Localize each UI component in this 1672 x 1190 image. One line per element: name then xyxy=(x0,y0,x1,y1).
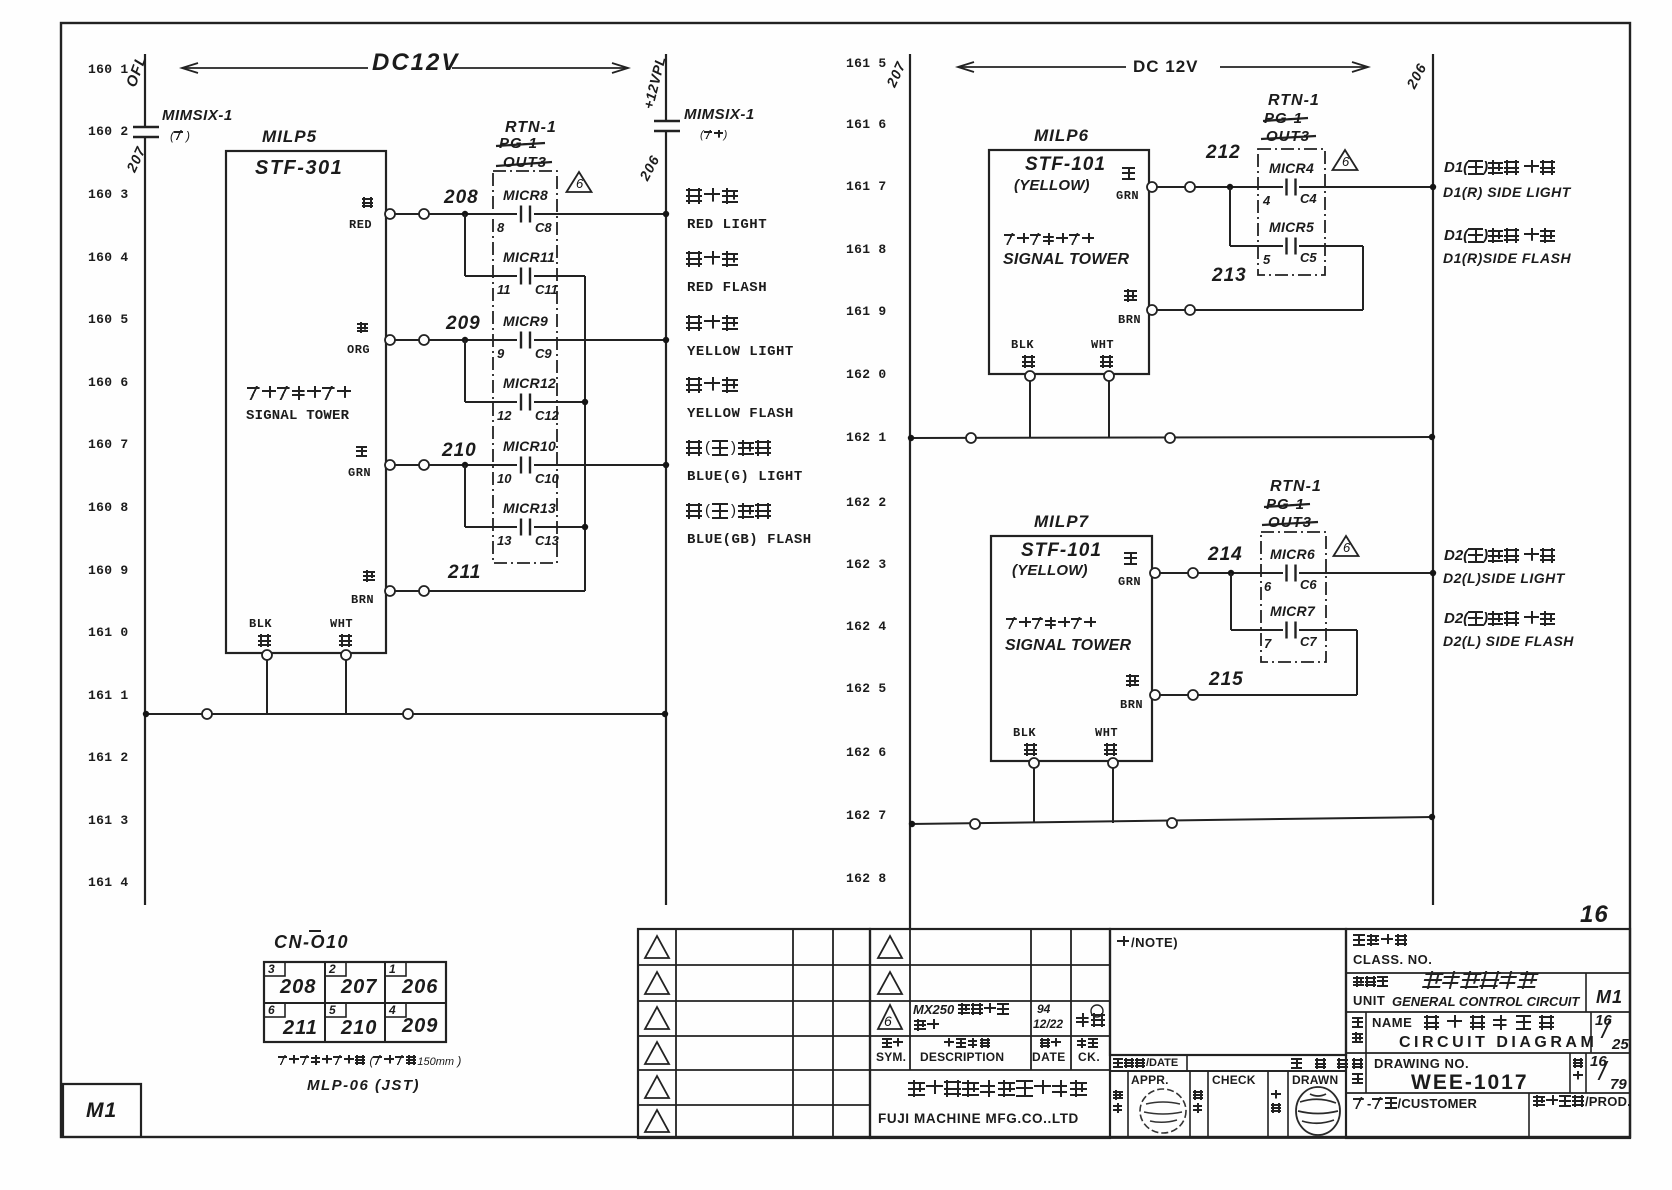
capacitor label MICR6/C6 xyxy=(1270,547,1315,561)
wire branch 208 down xyxy=(464,214,466,276)
wire branch 210 down xyxy=(464,465,466,527)
sheet code box M1 xyxy=(63,1084,141,1137)
sheet code M1 xyxy=(86,1100,117,1121)
capacitor C13 MICR13 xyxy=(520,519,522,536)
signal tower MILP6 STF-101 box xyxy=(989,150,1149,374)
wire label 213 xyxy=(1212,266,1247,285)
drawing no row xyxy=(1352,1058,1365,1089)
pin GRN circle MILP7 xyxy=(1150,568,1160,578)
svg-text:6: 6 xyxy=(576,176,584,191)
label STF-101 MILP6 xyxy=(1025,155,1106,174)
output label D2 side light xyxy=(1444,548,1556,563)
unit row xyxy=(1353,976,1389,987)
macron over CN-010 zero xyxy=(309,930,321,932)
revision triangle L1 xyxy=(645,936,669,958)
wire label 209 xyxy=(446,314,481,333)
connector label MIMSIX-1 left xyxy=(162,108,233,123)
output label D1 side flash xyxy=(1444,228,1556,243)
pin GRN circle xyxy=(385,460,395,470)
wire flash return MILP6 xyxy=(1362,246,1364,310)
node label row 1615 xyxy=(846,57,887,70)
unit sheet M1 xyxy=(1596,988,1623,1006)
node label row 1627 xyxy=(846,809,887,822)
node label row 1617 xyxy=(846,180,887,193)
label signal tower katakana MILP7 xyxy=(1006,617,1097,629)
output label RED FLASH xyxy=(686,251,740,267)
revision table right block xyxy=(870,929,1110,1138)
page col labels xyxy=(1573,1058,1585,1084)
node label row 1611 xyxy=(88,689,129,702)
pin GRN circle MILP6 xyxy=(1147,182,1157,192)
capacitor label MICR10/C10 xyxy=(503,439,556,453)
label signal tower katakana MILP6 xyxy=(1004,233,1095,245)
revision date 94 12/22 xyxy=(1037,1003,1050,1015)
node label row 1625 xyxy=(846,682,887,695)
output label BLUE(GB) FLASH xyxy=(686,503,772,519)
signal tower MILP5 STF-301 box xyxy=(226,151,386,653)
wire D1 flash row xyxy=(1230,245,1283,247)
pin RED circle xyxy=(385,209,395,219)
wire RED flash row xyxy=(465,275,517,277)
signal tower MILP7 STF-101 box xyxy=(991,536,1152,761)
net label +12VPL xyxy=(641,55,668,111)
strike line OUT3 M6 xyxy=(1261,136,1316,139)
node label row 1623 xyxy=(846,558,887,571)
output label YELLOW LIGHT xyxy=(686,315,740,331)
node label row 1612 xyxy=(88,751,129,764)
revision triangle L4 xyxy=(645,1042,669,1064)
strike line PG-1 M6 xyxy=(1263,118,1308,121)
return box RTN-1 MILP6 dash-dot xyxy=(1258,149,1325,275)
note header xyxy=(1117,936,1178,949)
output label YELLOW FLASH xyxy=(686,377,740,393)
wire WHT leg xyxy=(345,660,347,714)
pin label BLK MILP6 xyxy=(1011,339,1034,351)
label PG-1 struck xyxy=(499,136,538,151)
connector label MIMSIX-1 right xyxy=(684,107,755,122)
capacitor label MICR11/C11 xyxy=(503,250,555,264)
output label RED LIGHT xyxy=(686,188,740,204)
net label 206 right half xyxy=(1404,61,1429,91)
connector pin value 207 xyxy=(341,977,377,997)
label signal tower side lead note xyxy=(278,1055,461,1068)
pin label BRN xyxy=(363,570,377,582)
wire label 215 xyxy=(1209,670,1244,689)
pin label GRN MILP6 xyxy=(1122,167,1137,180)
wire BLK leg MILP6 xyxy=(1029,381,1031,438)
label RTN-1 left xyxy=(505,120,557,136)
circle CK mark xyxy=(1091,1005,1103,1017)
label MILP6 xyxy=(1034,127,1089,144)
node +12VPL right bus of left half xyxy=(665,54,667,121)
connector MIMSIX-1 right bars xyxy=(654,120,680,123)
svg-text:6: 6 xyxy=(1342,154,1350,169)
capacitor C5 MICR5 xyxy=(1285,238,1287,255)
page 16/79 xyxy=(1590,1054,1607,1069)
net label 206 right bus of left half xyxy=(637,153,662,183)
pin label ORG xyxy=(357,322,370,333)
pin BRN circle xyxy=(385,586,395,596)
stamp APPR scribble xyxy=(1140,1089,1186,1133)
node label row 1610 xyxy=(88,626,129,639)
wire label 214 xyxy=(1208,545,1243,564)
wire label 212 xyxy=(1206,143,1241,162)
node label row 1603 xyxy=(88,188,129,201)
node label row 1619 xyxy=(846,305,887,318)
pin BRN circle MILP7 xyxy=(1150,690,1160,700)
name row xyxy=(1352,1017,1365,1048)
pin BRN circle MILP6 xyxy=(1147,305,1157,315)
wire flash return MILP7 xyxy=(1356,630,1358,695)
connector pin value 208 xyxy=(280,977,316,997)
output label D1 side light xyxy=(1444,160,1556,175)
label SIGNAL TOWER MILP6 xyxy=(1003,252,1129,268)
unit name GENERAL CONTROL CIRCUIT xyxy=(1392,995,1579,1008)
wire label 208 xyxy=(444,188,479,207)
pin ORG circle xyxy=(385,335,395,345)
date header row xyxy=(1113,1058,1178,1069)
connector pin value 209 xyxy=(402,1016,438,1036)
capacitor label MICR12/C12 xyxy=(503,376,556,390)
revision triangle 6 entry xyxy=(878,1005,902,1029)
label OUT3 struck xyxy=(503,155,547,170)
capacitor C7 MICR7 xyxy=(1285,622,1287,639)
revision table left block xyxy=(638,929,870,1138)
capacitor C10 MICR10 xyxy=(520,457,522,474)
node label row 1616 xyxy=(846,118,887,131)
node label row 1604 xyxy=(88,251,129,264)
note panel xyxy=(1110,929,1346,1055)
label RTN-1 MILP6 xyxy=(1268,93,1320,109)
node label row 1609 xyxy=(88,564,129,577)
pin label WHT MILP6 xyxy=(1091,339,1114,351)
return box RTN-1 MILP7 dash-dot xyxy=(1261,532,1326,662)
node label row 1605 xyxy=(88,313,129,326)
customer row xyxy=(1353,1097,1477,1110)
capacitor label MICR13/C13 xyxy=(503,501,556,515)
date header row xyxy=(1110,1055,1346,1071)
marker triangle 6 MILP7 xyxy=(1334,536,1359,556)
pin WHT circle MILP6 xyxy=(1104,371,1114,381)
name CIRCUIT DIAGRAM xyxy=(1399,1035,1597,1051)
node label row 1606 xyxy=(88,376,129,389)
node label row 1622 xyxy=(846,496,887,509)
pin BLK circle MILP6 xyxy=(1025,371,1035,381)
net label DC12V left xyxy=(372,51,459,75)
connector pin value 210 xyxy=(341,1018,377,1038)
label MILP7 xyxy=(1034,513,1089,530)
wire DC 12V span arrow right half xyxy=(958,66,1126,68)
label RTN-1 MILP7 xyxy=(1270,479,1322,495)
capacitor C11 MICR11 xyxy=(520,268,522,285)
wire 213 BRN row MILP6 xyxy=(1157,309,1363,311)
strike line PG-1 M7 xyxy=(1264,504,1310,507)
pin WHT circle MILP7 xyxy=(1108,758,1118,768)
wire 209 ORG light row xyxy=(395,339,517,341)
wire 1627 row xyxy=(910,817,1433,824)
pin label WHT xyxy=(330,618,353,630)
wire BLK leg MILP7 xyxy=(1033,768,1035,823)
node label row 1621 xyxy=(846,431,887,444)
node label row 1601 xyxy=(88,63,129,76)
capacitor C4 MICR4 xyxy=(1285,179,1287,196)
connector MIMSIX-1 left bars xyxy=(133,126,159,129)
node label row 1614 xyxy=(88,876,129,889)
node 206 bus right half xyxy=(1432,54,1434,905)
revision triangle L3 xyxy=(645,1007,669,1029)
pin label RED xyxy=(362,197,375,208)
connector pin value 206 xyxy=(402,977,438,997)
label MILP5 xyxy=(262,128,317,145)
title block panel xyxy=(1346,929,1630,1138)
capacitor label MICR9/C9 xyxy=(503,314,548,328)
label STF-301 xyxy=(255,158,343,178)
page 16/25 xyxy=(1595,1013,1612,1028)
node label row 1620 xyxy=(846,368,887,381)
capacitor label MICR8/C8 xyxy=(503,188,548,202)
capacitor label MICR4/C4 xyxy=(1269,161,1314,175)
revision triangle R1 xyxy=(878,936,902,958)
pin label BRN MILP6 xyxy=(1124,289,1139,302)
wire 1621 row xyxy=(910,437,1433,438)
label MLP-06 JST xyxy=(307,1078,420,1093)
wire 212 D1 light row xyxy=(1157,186,1283,188)
strike line OUT3 M7 xyxy=(1262,522,1318,525)
stamp row cells xyxy=(1110,1071,1346,1138)
name kanji circuit diagram xyxy=(1424,1015,1562,1030)
drawing number WEE-1017 xyxy=(1411,1072,1529,1093)
pin label BRN MILP7 xyxy=(1126,674,1141,687)
capacitor C6 MICR6 xyxy=(1285,565,1287,582)
wire 208 RED light row xyxy=(395,213,517,215)
revision entry MX250 note xyxy=(913,1003,1010,1016)
unit name handwritten kanji xyxy=(1422,971,1540,989)
revision triangle L2 xyxy=(645,972,669,994)
node label row 1613 xyxy=(88,814,129,827)
net label DC 12V right xyxy=(1133,58,1199,75)
label SIGNAL TOWER xyxy=(246,409,349,423)
marker triangle 6 MILP6 xyxy=(1333,150,1358,170)
pin label WHT MILP7 xyxy=(1095,727,1118,739)
stamp DRAWN scribble xyxy=(1296,1087,1340,1135)
revision CK name xyxy=(1076,1013,1106,1027)
wire BLUE flash row xyxy=(465,526,517,528)
net label OFL xyxy=(124,53,149,89)
pin label BLK xyxy=(249,618,272,630)
svg-text:6: 6 xyxy=(1343,540,1351,555)
node 207 bus right half xyxy=(909,54,911,928)
capacitor label MICR5/C5 xyxy=(1269,220,1314,234)
wire 211 BRN row xyxy=(395,590,585,592)
node label row 1602 xyxy=(88,125,129,138)
pin label GRN xyxy=(356,446,369,457)
marker triangle 6 left xyxy=(567,172,592,192)
capacitor C12 MICR12 xyxy=(520,394,522,411)
label STF-101 MILP7 xyxy=(1021,541,1102,560)
header SYM row xyxy=(882,1038,904,1048)
revision triangle L6 xyxy=(645,1110,669,1132)
strike line PG-1 left xyxy=(496,143,545,146)
wire flash return vertical xyxy=(584,276,586,591)
return box RTN-1 left dash-dot xyxy=(493,171,557,563)
node label row 1628 xyxy=(846,872,887,885)
net label 207 left bus xyxy=(124,144,148,174)
wire WHT leg MILP7 xyxy=(1112,768,1114,823)
wire DC12V span arrow left half xyxy=(182,67,368,69)
connector label CN-010 xyxy=(274,933,349,951)
revision triangle R2 xyxy=(878,972,902,994)
wire BLK leg xyxy=(266,660,268,714)
wire label 210 xyxy=(442,441,477,460)
node OFL left bus xyxy=(144,54,146,127)
svg-text:6: 6 xyxy=(884,1013,892,1029)
pin WHT circle xyxy=(341,650,351,660)
wire 1611 bottom row xyxy=(145,713,666,715)
wire 210 GRN light row xyxy=(395,464,517,466)
output label BLUE(G) LIGHT xyxy=(686,440,772,456)
wire branch 214 down xyxy=(1230,573,1232,630)
stamp col labels xyxy=(1113,1090,1125,1116)
company name kanji xyxy=(908,1080,1088,1097)
page number 16 xyxy=(1580,903,1609,927)
wire 214 D2 light row xyxy=(1160,572,1283,574)
pin BLK circle xyxy=(262,650,272,660)
node label row 1624 xyxy=(846,620,887,633)
wire WHT leg MILP6 xyxy=(1108,381,1110,438)
pin label BLK MILP7 xyxy=(1013,727,1036,739)
company name FUJI MACHINE xyxy=(878,1112,1079,1126)
label SIGNAL TOWER MILP7 xyxy=(1005,638,1131,654)
wire label 211 xyxy=(448,563,481,582)
connector table CN-010 xyxy=(264,962,446,1042)
node label row 1608 xyxy=(88,501,129,514)
capacitor C8 MICR8 xyxy=(520,206,522,223)
label signal tower katakana xyxy=(247,386,352,400)
node label row 1618 xyxy=(846,243,887,256)
revision triangle L5 xyxy=(645,1076,669,1098)
wire branch 209 down xyxy=(464,340,466,402)
net label 207 right half xyxy=(884,59,908,89)
class no row xyxy=(1353,934,1409,946)
connector pin value 211 xyxy=(283,1018,318,1038)
pin BLK circle MILP7 xyxy=(1029,758,1039,768)
strike line OUT3 left xyxy=(496,162,552,166)
pin label GRN MILP7 xyxy=(1124,552,1139,565)
wire branch 212 down xyxy=(1229,187,1231,246)
wire YELLOW flash row xyxy=(465,401,517,403)
wire D2 flash row xyxy=(1231,629,1283,631)
capacitor C9 MICR9 xyxy=(520,332,522,349)
node label row 1626 xyxy=(846,746,887,759)
output label D2 side flash xyxy=(1444,611,1556,626)
wire 215 BRN row MILP7 xyxy=(1160,694,1357,696)
capacitor label MICR7/C7 xyxy=(1270,604,1315,618)
node label row 1607 xyxy=(88,438,129,451)
